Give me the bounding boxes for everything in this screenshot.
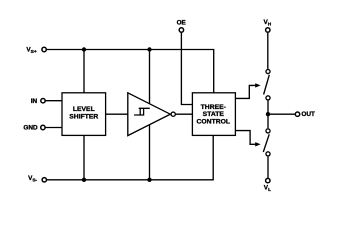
- three-state control U3: [192, 93, 235, 136]
- switch S1 blade: [264, 75, 270, 95]
- svg-text:VS+: VS+: [26, 47, 36, 55]
- wire level shifter VS- connection: [83, 135, 85, 179]
- wire IN: [46, 100, 63, 102]
- switch S1 bottom contact: [266, 96, 270, 100]
- wire level shifter output: [106, 113, 128, 115]
- level shifter U1: [62, 93, 106, 136]
- svg-text:VH: VH: [264, 19, 272, 27]
- wire GND: [45, 127, 62, 129]
- svg-text:OUT: OUT: [301, 111, 315, 118]
- svg-text:GND: GND: [23, 125, 38, 132]
- terminal OE: [179, 28, 183, 32]
- junction VS+ rail / level shifter: [82, 47, 86, 51]
- arrowhead top control: [255, 83, 260, 87]
- svg-text:THREE-: THREE-: [201, 104, 226, 111]
- svg-text:CONTROL: CONTROL: [196, 118, 230, 125]
- wire VS- rail: [47, 135, 214, 179]
- terminal VS+: [42, 47, 46, 51]
- junction VS- rail / inverter supply: [147, 178, 151, 182]
- switch S2 top contact: [266, 129, 270, 133]
- svg-text:LEVEL: LEVEL: [73, 106, 95, 113]
- inverter output bubble: [171, 112, 175, 116]
- wire OUT: [268, 113, 295, 115]
- svg-text:IN: IN: [31, 98, 38, 105]
- arrowhead bottom control: [255, 142, 260, 146]
- wire inverter output: [175, 113, 192, 115]
- svg-text:VS-: VS-: [28, 175, 37, 183]
- svg-text:VL: VL: [264, 185, 271, 193]
- switch S1 top contact: [266, 69, 270, 73]
- wire between switches: [267, 101, 269, 129]
- schmitt inverter U2: [128, 93, 171, 136]
- wire inverter supply VS+ to VS-: [149, 50, 151, 180]
- terminal IN: [41, 99, 45, 103]
- hysteresis symbol: [134, 108, 150, 115]
- wire switch S2 to VL: [267, 157, 269, 178]
- svg-text:OE: OE: [177, 19, 187, 26]
- junction VS- rail / level shifter: [82, 178, 86, 182]
- svg-text:STATE: STATE: [203, 111, 225, 118]
- terminal VL: [266, 178, 270, 182]
- terminal GND: [41, 125, 45, 129]
- wire bottom switch control: [235, 131, 255, 145]
- wire level shifter VS+ supply: [83, 50, 85, 93]
- switch S2 blade: [263, 134, 269, 152]
- terminal VS-: [42, 178, 46, 182]
- junction OUT node: [266, 112, 270, 116]
- wire VH to switch S1: [267, 33, 269, 69]
- switch S2 bottom contact: [266, 152, 270, 156]
- junction VS+ rail / inverter supply: [147, 47, 151, 51]
- wire VS+ rail: [46, 50, 213, 93]
- wire top switch control: [235, 85, 255, 98]
- svg-text:SHIFTER: SHIFTER: [69, 113, 98, 120]
- wire OE to three-state control: [181, 33, 192, 105]
- terminal OUT: [295, 112, 299, 116]
- terminal VH: [266, 28, 270, 32]
